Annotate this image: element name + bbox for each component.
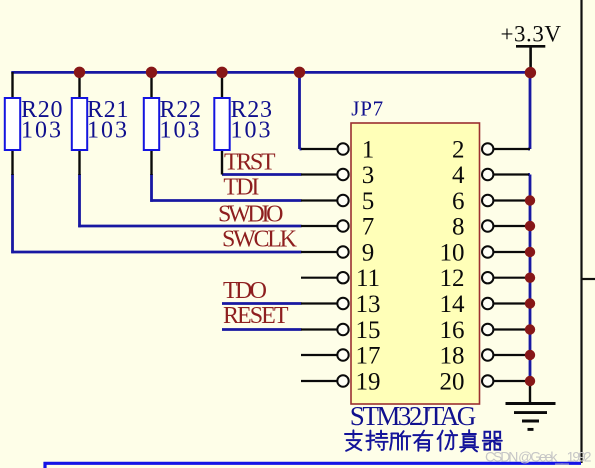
svg-text:SWDIO: SWDIO bbox=[218, 201, 284, 227]
svg-text:103: 103 bbox=[87, 117, 127, 143]
svg-text:TRST: TRST bbox=[224, 150, 276, 176]
svg-text:103: 103 bbox=[231, 117, 271, 143]
svg-text:11: 11 bbox=[356, 265, 380, 292]
svg-text:8: 8 bbox=[452, 214, 465, 241]
svg-text:15: 15 bbox=[356, 317, 381, 344]
svg-text:6: 6 bbox=[452, 188, 465, 215]
svg-text:STM32JTAG: STM32JTAG bbox=[350, 401, 477, 431]
svg-text:20: 20 bbox=[440, 369, 465, 396]
svg-text:SWCLK: SWCLK bbox=[222, 227, 298, 253]
svg-text:19: 19 bbox=[356, 369, 381, 396]
svg-text:4: 4 bbox=[452, 162, 465, 189]
svg-text:18: 18 bbox=[440, 343, 465, 370]
svg-text:16: 16 bbox=[440, 317, 465, 344]
svg-text:10: 10 bbox=[440, 240, 465, 267]
svg-text:RESET: RESET bbox=[223, 303, 289, 329]
svg-text:103: 103 bbox=[160, 117, 200, 143]
svg-text:TDO: TDO bbox=[223, 278, 267, 304]
svg-text:5: 5 bbox=[362, 188, 375, 215]
svg-text:3: 3 bbox=[362, 162, 375, 189]
svg-text:CSDN @Geek__1992: CSDN @Geek__1992 bbox=[485, 449, 592, 465]
svg-text:JP7: JP7 bbox=[351, 97, 383, 121]
svg-text:9: 9 bbox=[362, 240, 375, 267]
svg-text:103: 103 bbox=[21, 117, 61, 143]
svg-text:17: 17 bbox=[356, 343, 381, 370]
svg-text:7: 7 bbox=[362, 214, 375, 241]
svg-text:+3.3V: +3.3V bbox=[501, 22, 562, 47]
svg-text:2: 2 bbox=[452, 137, 465, 164]
svg-text:13: 13 bbox=[356, 291, 381, 318]
svg-text:12: 12 bbox=[440, 265, 465, 292]
svg-text:1: 1 bbox=[362, 137, 375, 164]
svg-text:TDI: TDI bbox=[223, 175, 259, 201]
svg-text:14: 14 bbox=[440, 291, 466, 318]
